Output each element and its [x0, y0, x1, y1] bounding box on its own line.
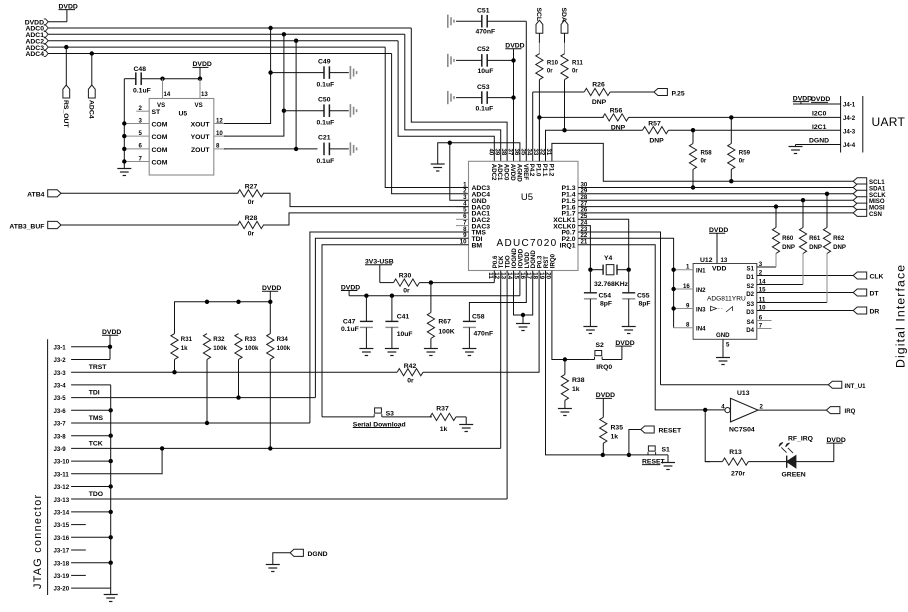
- ground C53: [448, 91, 454, 104]
- svg-text:11: 11: [487, 272, 494, 279]
- resistor R38: [561, 360, 584, 409]
- svg-text:C58: C58: [472, 314, 485, 321]
- pin 16 IN2: [674, 283, 706, 294]
- resistor R30: [394, 273, 495, 295]
- svg-text:IN4: IN4: [696, 326, 706, 333]
- terminal DR: [853, 307, 879, 316]
- svg-text:0.1uF: 0.1uF: [317, 120, 335, 127]
- svg-text:D1: D1: [746, 274, 754, 281]
- terminal SCL1: [853, 178, 885, 187]
- node J3-3 TRST: [54, 364, 398, 377]
- wire TDI: [315, 238, 468, 397]
- svg-text:COM: COM: [152, 160, 168, 167]
- power DVDD rail: [341, 284, 520, 295]
- wire ADC3 to pin1: [385, 47, 468, 187]
- AGND net wire: [438, 141, 520, 201]
- pin 24 XCLK0: [553, 219, 590, 269]
- svg-text:VS: VS: [195, 102, 203, 109]
- svg-text:R42: R42: [404, 363, 417, 370]
- svg-text:RESET: RESET: [659, 428, 683, 435]
- resistor R60: [772, 207, 795, 267]
- svg-text:R35: R35: [611, 425, 624, 432]
- node ADC3 input: [25, 44, 385, 52]
- svg-text:I2C1: I2C1: [812, 124, 827, 131]
- net 3V3-USB: [365, 258, 394, 282]
- svg-text:J4-3: J4-3: [843, 129, 856, 136]
- svg-text:J4-4: J4-4: [843, 142, 856, 149]
- connector J4 UART: [841, 96, 863, 153]
- svg-text:ADG811YRU: ADG811YRU: [707, 296, 746, 303]
- svg-text:INT_U1: INT_U1: [845, 383, 867, 390]
- pin 5 DAC1: [463, 207, 490, 218]
- svg-text:U13: U13: [737, 390, 750, 397]
- power DVDD top-left: [59, 3, 78, 21]
- svg-text:12: 12: [216, 117, 223, 124]
- svg-text:ADC4: ADC4: [25, 51, 44, 58]
- wire ADC2 to pin40: [398, 41, 494, 162]
- terminal INT_U1: [661, 381, 867, 390]
- svg-text:10uF: 10uF: [397, 331, 413, 338]
- junction IN1: [671, 268, 675, 272]
- wire TDO long: [506, 271, 508, 500]
- svg-text:IN2: IN2: [696, 287, 706, 294]
- svg-text:P4.2: P4.2: [528, 164, 535, 177]
- switch S3: [322, 408, 432, 428]
- terminal CSN: [853, 209, 882, 218]
- wire P4.2 drop: [532, 92, 534, 161]
- junction ADC1 drop: [282, 32, 286, 36]
- svg-text:J3-13: J3-13: [54, 497, 70, 504]
- svg-text:P1.2: P1.2: [547, 164, 554, 177]
- svg-text:1k: 1k: [440, 426, 448, 433]
- junction VS pin13: [198, 77, 202, 81]
- junction U13 input / LED branch: [703, 408, 707, 412]
- svg-text:C54: C54: [599, 293, 612, 300]
- wire RST long: [546, 271, 603, 455]
- svg-text:7: 7: [759, 322, 763, 329]
- wire ADC4 to pin2: [392, 54, 469, 194]
- svg-text:TRST: TRST: [89, 364, 108, 371]
- node J3-8: [54, 433, 113, 440]
- svg-text:S2: S2: [747, 283, 755, 290]
- svg-text:C49: C49: [318, 59, 331, 66]
- svg-text:37: 37: [507, 149, 514, 156]
- svg-text:DNP: DNP: [782, 244, 795, 251]
- node J3-17: [54, 548, 86, 555]
- svg-text:J3-3: J3-3: [54, 370, 67, 377]
- wire R28 to DAC1: [61, 213, 469, 225]
- pin 1 ADC3: [463, 181, 490, 192]
- wire TMS: [310, 232, 469, 423]
- power DVDD U12: [709, 227, 728, 264]
- wire pin14: [162, 79, 164, 99]
- switch S2: [591, 342, 622, 371]
- resistor R26: [533, 82, 654, 107]
- wire ADC2 drop: [295, 41, 297, 149]
- pin 27 P1.6: [562, 200, 854, 211]
- pin 5 COM: [124, 130, 167, 141]
- wire P1.2 to SCL1: [552, 143, 853, 181]
- svg-text:J3-12: J3-12: [54, 484, 70, 491]
- svg-text:R13: R13: [729, 449, 742, 456]
- wire YOUT to ADC1: [224, 34, 284, 136]
- svg-text:0r: 0r: [248, 199, 255, 206]
- pin 4 DAC0: [456, 200, 490, 211]
- svg-text:NC7S04: NC7S04: [729, 426, 755, 433]
- pin 25 XCLK1: [553, 213, 628, 270]
- svg-text:38: 38: [500, 149, 507, 156]
- svg-text:VDD: VDD: [712, 266, 726, 273]
- junction COM6: [122, 147, 126, 151]
- svg-text:ADC0: ADC0: [503, 164, 510, 181]
- node J3-6: [54, 408, 113, 415]
- svg-text:TDI: TDI: [89, 390, 100, 397]
- junction ADC2 drop: [294, 39, 298, 43]
- svg-text:8pF: 8pF: [600, 301, 612, 308]
- wire BM: [322, 245, 469, 417]
- wire R27 to DAC0: [61, 193, 469, 206]
- ground R38: [558, 409, 572, 416]
- svg-text:0.1uF: 0.1uF: [341, 326, 359, 333]
- junction R59 top: [729, 115, 733, 119]
- node ADC2 input: [25, 38, 398, 46]
- svg-text:IRQ1: IRQ1: [560, 242, 576, 249]
- svg-text:P1.1: P1.1: [541, 164, 548, 177]
- power DVDD AVDD rail: [505, 43, 524, 162]
- svg-text:CSN: CSN: [869, 211, 882, 218]
- svg-text:C52: C52: [477, 46, 490, 53]
- svg-text:J3-14: J3-14: [54, 510, 70, 517]
- pin 6 S4 U12: [747, 314, 772, 326]
- junction R62/SCLK: [825, 192, 829, 196]
- svg-text:ATB4: ATB4: [27, 192, 44, 199]
- terminal SCL: [535, 8, 543, 43]
- svg-text:0.1uF: 0.1uF: [317, 158, 335, 165]
- pin 10 YOUT: [191, 130, 226, 141]
- ground C52: [448, 54, 454, 67]
- svg-text:COM: COM: [152, 147, 168, 154]
- svg-text:J3-4: J3-4: [54, 383, 67, 390]
- svg-text:C21: C21: [318, 134, 331, 141]
- svg-text:R67: R67: [438, 319, 451, 326]
- svg-text:TCK: TCK: [89, 440, 103, 447]
- pin 15 D2 U12: [746, 286, 853, 298]
- pin 8 TMS: [463, 226, 486, 237]
- svg-text:P1.0: P1.0: [535, 164, 542, 177]
- pin 29 P1.4: [562, 188, 854, 199]
- ground U12: [716, 358, 730, 365]
- junction R61/MISO: [801, 198, 805, 202]
- node ADC1 input: [25, 31, 404, 39]
- terminal DT: [853, 289, 879, 298]
- svg-text:16: 16: [683, 283, 690, 290]
- svg-text:D4: D4: [746, 327, 754, 334]
- node J3-11: [54, 446, 165, 478]
- svg-text:AVDD: AVDD: [509, 164, 516, 181]
- junction R35/RESET row: [601, 453, 605, 457]
- capacitor C47: [341, 296, 373, 349]
- junction XOUT/C49: [268, 70, 272, 74]
- node J3-18: [54, 560, 113, 567]
- power DVDD R35: [596, 392, 615, 417]
- junction IN3: [671, 306, 675, 310]
- node J3-12: [54, 484, 113, 491]
- ground R37: [459, 417, 473, 432]
- terminal MISO: [853, 197, 885, 206]
- svg-text:C41: C41: [397, 314, 410, 321]
- svg-text:R28: R28: [245, 215, 258, 222]
- crystal Y4: [590, 255, 628, 288]
- terminal SDA1: [853, 184, 886, 193]
- resistor R67: [427, 283, 454, 349]
- svg-text:R56: R56: [610, 108, 623, 115]
- pin 6 COM: [124, 143, 167, 154]
- svg-text:2: 2: [759, 269, 763, 276]
- svg-text:BM: BM: [472, 242, 483, 249]
- svg-text:470nF: 470nF: [474, 331, 494, 338]
- ground C41: [385, 349, 399, 356]
- resistor R33: [235, 334, 259, 400]
- resistor R27: [238, 184, 264, 207]
- svg-text:8pF: 8pF: [639, 301, 651, 308]
- wire to RS_OUT: [65, 47, 67, 85]
- power DVDD LED: [827, 437, 846, 462]
- svg-text:DNP: DNP: [809, 244, 822, 251]
- svg-text:Y4: Y4: [604, 255, 613, 262]
- svg-text:C47: C47: [343, 319, 356, 326]
- svg-text:32.768KHz: 32.768KHz: [594, 281, 629, 288]
- node ADC0 input: [25, 25, 411, 33]
- svg-text:J3-2: J3-2: [54, 357, 67, 364]
- svg-text:DT: DT: [870, 291, 880, 298]
- svg-text:J3-18: J3-18: [54, 560, 70, 567]
- capacitor C51: [456, 8, 526, 36]
- capacitor C49: [271, 59, 349, 89]
- capacitor C21: [317, 134, 349, 164]
- wire P1.1 drop: [546, 130, 565, 161]
- wire IOVDD: [519, 271, 521, 296]
- JTAG bracket: [47, 339, 49, 595]
- svg-text:0r: 0r: [248, 231, 255, 238]
- junction YOUT/C50: [282, 109, 286, 113]
- pin 7 DAC3: [456, 219, 490, 230]
- svg-text:J4-2: J4-2: [843, 115, 856, 122]
- junction ADC0 drop: [268, 26, 272, 30]
- resistor R57: [565, 121, 841, 145]
- svg-text:DGND: DGND: [809, 138, 829, 145]
- svg-text:ADC2: ADC2: [490, 164, 497, 181]
- svg-text:S1: S1: [747, 265, 755, 272]
- junction R59 bottom: [729, 179, 733, 183]
- node J3-1: [54, 344, 113, 351]
- terminal CLK: [853, 272, 883, 281]
- svg-text:100k: 100k: [277, 345, 291, 352]
- capacitor C55: [622, 270, 650, 327]
- capacitor C50: [284, 97, 349, 127]
- svg-text:R61: R61: [809, 235, 821, 242]
- node J3-7 TMS: [54, 415, 310, 428]
- svg-text:11: 11: [759, 296, 766, 303]
- pin numbers top 40-31: [487, 149, 552, 156]
- power DVDD UART: [793, 95, 841, 104]
- pin 9 TDI: [463, 232, 482, 243]
- ground C21: [350, 142, 356, 155]
- pin 1 IN1: [674, 264, 706, 275]
- svg-text:R60: R60: [782, 235, 794, 242]
- pin 10 BM: [460, 239, 483, 250]
- svg-text:J3-10: J3-10: [54, 459, 70, 466]
- resistor R56: [539, 108, 840, 132]
- terminal MOSI: [853, 203, 885, 212]
- resistor R61: [799, 200, 822, 284]
- ground JTAG: [104, 588, 118, 601]
- ground accel: [117, 169, 131, 176]
- junction R60/MOSI: [774, 204, 778, 208]
- capacitor C41: [385, 296, 412, 349]
- svg-text:35: 35: [519, 149, 526, 156]
- capacitor C54: [584, 270, 612, 327]
- svg-text:S4: S4: [747, 319, 755, 326]
- svg-text:J3-11: J3-11: [54, 471, 70, 478]
- junction COM7: [122, 159, 126, 163]
- node DVDD input: [25, 19, 67, 27]
- svg-text:IRQ0: IRQ0: [596, 364, 612, 371]
- wire ZOUT to C21: [224, 148, 318, 150]
- wire P1.0 into pin33: [538, 117, 540, 161]
- svg-text:R58: R58: [701, 150, 713, 157]
- svg-text:C55: C55: [637, 293, 650, 300]
- pin 14 S2 U12: [747, 278, 803, 290]
- svg-text:VS: VS: [157, 102, 165, 109]
- svg-text:DR: DR: [870, 309, 880, 316]
- wire RESET row to S1: [603, 454, 668, 456]
- junction C47: [364, 294, 368, 298]
- svg-text:470nF: 470nF: [476, 29, 496, 36]
- svg-text:C50: C50: [318, 97, 331, 104]
- power DVDD JTAG: [102, 329, 121, 360]
- terminal DGND: [273, 549, 328, 564]
- resistor R62: [823, 194, 846, 303]
- svg-text:VREF: VREF: [522, 164, 529, 181]
- svg-text:TMS: TMS: [89, 415, 104, 422]
- junction C41: [390, 294, 394, 298]
- svg-text:J3-5: J3-5: [54, 395, 67, 402]
- junction R11/R57: [562, 128, 566, 132]
- svg-text:DNP: DNP: [833, 244, 846, 251]
- svg-text:J3-6: J3-6: [54, 408, 67, 415]
- svg-text:R38: R38: [572, 377, 585, 384]
- svg-text:1k: 1k: [572, 386, 580, 393]
- svg-text:RF_IRQ: RF_IRQ: [788, 436, 813, 443]
- junction R30/R67: [429, 280, 433, 284]
- svg-text:IN3: IN3: [696, 306, 706, 313]
- junction XCLK0/C54: [588, 268, 592, 272]
- junction R58 bottom: [691, 185, 695, 189]
- ground S1: [661, 455, 675, 470]
- wire JTAG ground chain: [110, 385, 112, 588]
- wire VREF: [525, 21, 527, 161]
- svg-text:U12: U12: [700, 257, 713, 264]
- svg-text:COM: COM: [152, 122, 168, 129]
- svg-text:14: 14: [164, 91, 171, 98]
- svg-text:100k: 100k: [213, 345, 227, 352]
- svg-text:UART: UART: [872, 115, 906, 129]
- svg-text:JTAG connector: JTAG connector: [32, 494, 44, 589]
- svg-text:0.1uF: 0.1uF: [317, 82, 335, 89]
- wire P0.6: [493, 271, 495, 283]
- svg-text:100K: 100K: [438, 328, 454, 335]
- capacitor C52: [456, 46, 514, 75]
- pin labels top: [490, 164, 555, 183]
- wire pullup bus: [175, 302, 271, 334]
- wire IOGND DGND: [514, 271, 533, 324]
- svg-text:GND: GND: [716, 332, 730, 339]
- svg-text:13: 13: [721, 257, 728, 264]
- svg-text:S3: S3: [747, 301, 755, 308]
- svg-text:39: 39: [494, 149, 501, 156]
- svg-text:Digital Interface: Digital Interface: [894, 264, 908, 368]
- svg-text:2: 2: [760, 403, 764, 410]
- svg-text:J3-15: J3-15: [54, 522, 70, 529]
- svg-text:R37: R37: [436, 405, 449, 412]
- ground C54: [583, 327, 597, 334]
- svg-text:XOUT: XOUT: [191, 122, 211, 129]
- COM chain wire: [123, 79, 125, 169]
- ground AGND: [431, 164, 445, 171]
- svg-text:D2: D2: [746, 291, 754, 298]
- junction C53/DVDD: [511, 95, 515, 99]
- pin 21 IRQ1: [560, 239, 725, 410]
- svg-text:AGND: AGND: [515, 164, 522, 183]
- junction C52/DVDD: [511, 58, 515, 62]
- junction bus R33: [236, 300, 240, 304]
- svg-text:S2: S2: [596, 342, 605, 349]
- power DVDD R31-R34 bus: [262, 285, 281, 302]
- resistor R10: [536, 43, 559, 161]
- svg-text:R27: R27: [245, 184, 258, 191]
- svg-text:ADUC7020: ADUC7020: [497, 238, 558, 249]
- svg-text:DGND: DGND: [308, 551, 328, 558]
- ground IOGND: [516, 324, 530, 331]
- switch S1: [642, 446, 670, 465]
- power DVDD S2: [615, 340, 634, 360]
- terminal ATB4: [27, 190, 61, 199]
- svg-text:4: 4: [721, 403, 725, 410]
- svg-text:36: 36: [513, 149, 520, 156]
- svg-text:3: 3: [759, 261, 763, 268]
- junction bus R32: [205, 300, 209, 304]
- svg-text:ZOUT: ZOUT: [191, 147, 210, 154]
- pin 11 S3 U12: [747, 296, 827, 308]
- wire to ADC4 terminal: [91, 54, 93, 86]
- svg-text:34: 34: [526, 149, 533, 156]
- svg-text:40: 40: [487, 149, 494, 156]
- svg-text:ATB3_BUF: ATB3_BUF: [9, 223, 44, 230]
- svg-text:R26: R26: [592, 82, 605, 89]
- junction R38 top: [563, 357, 567, 361]
- svg-text:SDA: SDA: [560, 8, 567, 22]
- svg-text:R10: R10: [547, 60, 559, 67]
- wire R42 to P0.3: [423, 271, 539, 373]
- pin 7 D4 U12: [746, 322, 771, 334]
- resistor R35: [600, 417, 623, 455]
- svg-text:5: 5: [726, 342, 730, 349]
- ground R67: [424, 349, 438, 356]
- svg-text:10: 10: [759, 304, 766, 311]
- junction XCLK1/C55: [627, 268, 631, 272]
- svg-text:R30: R30: [399, 273, 412, 280]
- svg-text:0r: 0r: [403, 288, 410, 295]
